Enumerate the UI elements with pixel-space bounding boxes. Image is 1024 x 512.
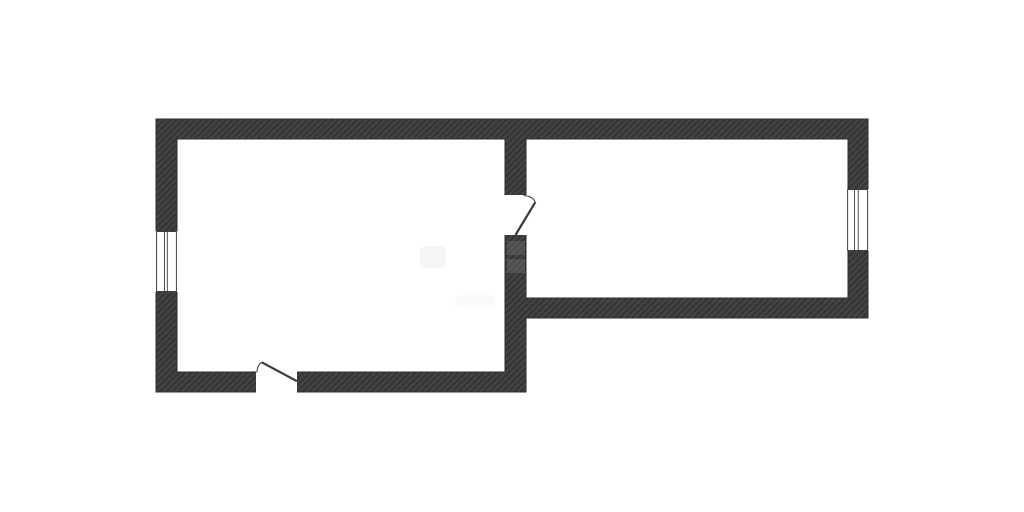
watermark light patches on interior wall (507, 241, 525, 273)
door D1 leaf (262, 362, 297, 381)
door D2 hinge arc (524, 196, 536, 203)
faint watermark smudge on background (420, 246, 495, 307)
door D1 opening (bottom wall) (256, 371, 297, 394)
window W1 opening (left wall) (155, 231, 179, 292)
window W2 symbol (848, 190, 868, 251)
walls: exterior + interior, hatched compound shape (156, 119, 868, 392)
door D1 hinge arc (257, 362, 262, 372)
door D2 opening (interior wall) (504, 195, 528, 235)
door D2 leaf (516, 202, 536, 235)
window W1 symbol (157, 232, 177, 292)
window W2 opening (right wall) (846, 189, 870, 251)
